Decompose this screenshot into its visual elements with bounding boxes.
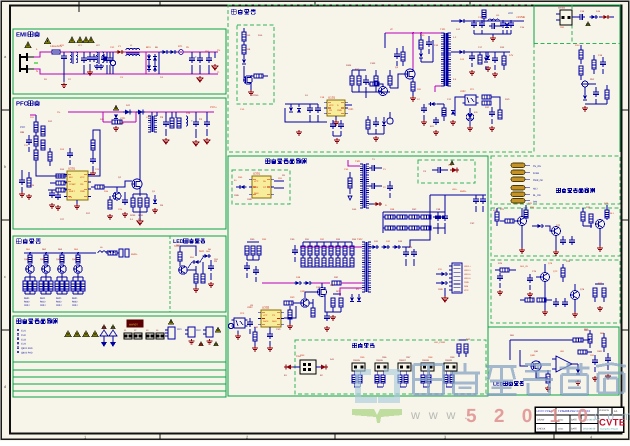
- svg-text:R1B: R1B: [246, 48, 251, 51]
- hl snub res R301: [348, 178, 352, 188]
- daiji sub mosfet Q101: [244, 76, 252, 84]
- hl res bank row1: [301, 246, 305, 255]
- svg-text:ADJ: ADJ: [533, 188, 537, 191]
- daiji fb grounds: [469, 126, 471, 128]
- fuliao table line 5: [13, 390, 226, 392]
- hl opto right wires: [274, 180, 284, 182]
- resistor R219 h: [56, 188, 65, 192]
- lp mosfet Q801: [531, 361, 541, 371]
- bg connector 4 resistors: [421, 375, 425, 383]
- svg-text:BD1: BD1: [146, 46, 151, 49]
- svg-text:CN101: CN101: [558, 7, 566, 10]
- svg-text:R3A: R3A: [238, 176, 243, 179]
- svg-text:CN8: CN8: [428, 356, 433, 359]
- ledp res R612: [194, 274, 198, 283]
- svg-text:5VSB: 5VSB: [533, 172, 539, 175]
- tv sub3 cap1: [497, 275, 503, 277]
- fuliao list bullet 3: [17, 338, 19, 340]
- svg-text:RCS: RCS: [336, 290, 341, 293]
- svg-text:PFC: PFC: [20, 126, 25, 129]
- daiji cap C103: [363, 79, 369, 81]
- junliu top rail: [24, 252, 96, 254]
- daiji res R106: [370, 82, 379, 86]
- cap C205: [204, 121, 210, 123]
- daiji right compartment right edge: [619, 5, 621, 152]
- zone tick right b: [622, 219, 629, 221]
- hl drv wires: [305, 292, 317, 298]
- svg-text:R601: R601: [24, 297, 30, 300]
- svg-text:C1A: C1A: [240, 108, 245, 111]
- daiji right compartment divider v: [571, 5, 573, 44]
- hl xfmr T301: [360, 163, 363, 165]
- daiji right cap C112: [579, 14, 581, 20]
- svg-text:VCC: VCC: [464, 289, 469, 292]
- tv sub2 q1: [518, 217, 527, 226]
- bg diode left: [286, 365, 291, 370]
- pfc left chain2 R215: [41, 140, 45, 150]
- fuliao conn E1: [168, 327, 175, 339]
- junliu cell 1 feed resistor R240: [28, 255, 32, 263]
- pfc ctrl IC U201: [67, 171, 88, 200]
- daiji bridge in wire: [285, 108, 327, 122]
- left low cluster cap C215: [19, 179, 25, 181]
- gate resistor R222: [95, 185, 104, 189]
- daiji mosfet drain wire: [413, 33, 441, 69]
- bridge rectifier BD1 d4: [153, 66, 157, 70]
- section title hengliu dianyuan - fanji: [265, 158, 270, 160]
- hl opto2 cap: [247, 321, 253, 323]
- daiji mosfet Q103: [405, 69, 415, 79]
- ground pfc caps1: [165, 138, 167, 140]
- divider junliu|LED-protect: [169, 236, 171, 312]
- tv sub3 q2: [571, 291, 580, 300]
- daiji right-ic res R121: [366, 120, 370, 129]
- tv oval pin P5: [511, 192, 525, 197]
- safety triangle 2: [25, 42, 31, 48]
- hl ic right wire: [284, 306, 296, 318]
- svg-text:CTR: CTR: [254, 186, 259, 189]
- svg-text:R3D: R3D: [250, 238, 255, 241]
- wire choke out: [140, 51, 146, 53]
- svg-text:T101: T101: [440, 28, 446, 31]
- svg-text:CN2: CN2: [196, 329, 201, 332]
- zone tick top 1: [159, 1, 161, 5]
- svg-text:VCC: VCC: [329, 104, 334, 107]
- pfc mosfet Q201: [132, 179, 142, 189]
- hl bottom cap: [324, 315, 330, 317]
- svg-text:CN1: CN1: [560, 26, 565, 29]
- resistor R218 h: [56, 181, 65, 185]
- hl grid r5: [385, 226, 395, 230]
- svg-text:1R0J: 1R0J: [24, 304, 29, 307]
- bg connector 3 resistors: [398, 375, 402, 383]
- hl drv res2: [288, 310, 292, 319]
- sense res wires: [133, 193, 147, 195]
- hl opto2 U303: [234, 318, 245, 328]
- svg-text:1R0J: 1R0J: [72, 304, 77, 307]
- svg-text:Q602: Q602: [40, 258, 46, 261]
- safety triangle near fuse: [44, 38, 50, 44]
- daiji rc2 mov RV101: [582, 81, 588, 87]
- hl snub tri: [348, 196, 352, 200]
- svg-text:R7A: R7A: [493, 209, 498, 212]
- junliu rail dot 2: [45, 252, 47, 254]
- junliu cell 2 transistor Q241: [42, 265, 50, 273]
- fuliao conn E2: [188, 327, 195, 337]
- fuliao list bullet 5: [17, 347, 19, 349]
- svg-text:Q6X2 PAD: Q6X2 PAD: [21, 352, 33, 355]
- svg-text:DIM: DIM: [533, 201, 537, 204]
- zener ZD201: [114, 115, 118, 119]
- svg-text:DIM: DIM: [464, 285, 468, 288]
- daiji res R107: [388, 76, 392, 85]
- svg-text:R1A: R1A: [258, 34, 263, 37]
- pfc top bus: [103, 111, 160, 113]
- daiji fb res R112: [482, 101, 491, 105]
- hl cs res: [331, 298, 335, 307]
- ground pfc caps2: [195, 140, 197, 142]
- daiji right wires: [572, 16, 577, 18]
- bg connector CN405: [444, 363, 457, 371]
- junliu cell 3 transistor Q242: [58, 265, 66, 273]
- svg-text:LED3+: LED3+: [464, 273, 471, 276]
- daiji sub chain R102: [242, 45, 246, 54]
- junliu output coil L601: [98, 251, 114, 253]
- hl mov RV301: [228, 323, 233, 328]
- lp res r4: [578, 350, 587, 354]
- fuliao table line 3: [13, 376, 226, 378]
- fuliao tri right: [215, 327, 221, 332]
- svg-text:CN7: CN7: [406, 356, 411, 359]
- tv oval pin P1: [511, 163, 525, 168]
- daiji ic U101: [327, 100, 345, 116]
- section title yu TV duan lianjie wangluo: [556, 187, 560, 189]
- lp grounds: [547, 386, 549, 388]
- pfc inductor L201: [148, 115, 151, 117]
- hl opto2 gnd: [237, 334, 239, 336]
- hl mid res: [332, 281, 341, 285]
- section box backlight dashed: [295, 340, 486, 394]
- svg-text:R1D: R1D: [420, 34, 425, 37]
- daiji bridge d2: [297, 108, 301, 112]
- hl xfmr bottom diode: [375, 202, 379, 206]
- bg connector CN401: [352, 363, 365, 371]
- daiji vcc diode D104: [430, 102, 434, 106]
- lp cap1: [592, 359, 598, 361]
- svg-text:CN407: CN407: [399, 359, 407, 362]
- svg-text:CN405: CN405: [353, 359, 361, 362]
- vcc wire: [88, 130, 100, 176]
- hl cs gnd: [332, 315, 334, 317]
- hl left col wires: [247, 241, 259, 243]
- daiji ic ground: [335, 120, 337, 122]
- svg-text:C3E: C3E: [408, 246, 413, 249]
- daiji sub ground: [250, 90, 252, 92]
- daiji right compartment left solid seg: [533, 5, 535, 44]
- resistor R217 h: [56, 174, 65, 178]
- zone tick bottom 2: [334, 434, 336, 440]
- daiji sub-box dashed: [237, 25, 274, 104]
- hl ic below res: [253, 332, 257, 341]
- wire emi top rail: [60, 51, 218, 53]
- hl pri wire top: [300, 246, 362, 248]
- tv sub3 q1: [541, 273, 550, 282]
- section box TV-connect dashed: [491, 156, 620, 204]
- bg diode right: [321, 365, 326, 370]
- daiji fb opto U102: [465, 95, 476, 105]
- daiji vcc res: [442, 108, 446, 116]
- svg-text:C3F: C3F: [254, 326, 259, 329]
- svg-text:U201: U201: [68, 167, 76, 171]
- daiji tl431 U103: [468, 114, 473, 119]
- fuliao warn plate: [127, 320, 143, 327]
- daiji sec cap C105: [471, 22, 477, 24]
- fuliao jumper JP1: [124, 333, 132, 339]
- daiji snubber cap C104: [426, 41, 432, 43]
- lp top wire: [510, 339, 568, 341]
- svg-text:U301: U301: [253, 172, 261, 176]
- svg-text:R231: R231: [138, 214, 144, 217]
- fuliao table line 1: [13, 361, 226, 363]
- title block col line a: [555, 407, 557, 432]
- cy pair grounds: [96, 64, 98, 66]
- svg-text:R1E: R1E: [500, 46, 505, 49]
- wire into ic top: [36, 168, 56, 176]
- fuliao jumper JP2: [134, 333, 142, 339]
- svg-text:LED+: LED+: [460, 190, 467, 193]
- hl sec diodes: [372, 245, 376, 249]
- bg connector 1 resistors: [352, 375, 356, 383]
- svg-text:LED+: LED+: [452, 188, 458, 191]
- daiji out cluster2 res: [502, 56, 506, 65]
- daiji bridge cap C101: [307, 107, 313, 109]
- svg-text:GND: GND: [80, 190, 85, 193]
- cap CY2: [87, 56, 93, 58]
- left low cluster cap C216: [55, 194, 61, 196]
- wire chain: [35, 115, 37, 122]
- wire bus to caps: [165, 112, 167, 120]
- hl res bank row1 wires: [303, 241, 352, 243]
- svg-text:GND: GND: [337, 109, 342, 112]
- svg-text:R3G: R3G: [290, 296, 295, 299]
- svg-text:R3F: R3F: [334, 276, 339, 279]
- svg-text:CN408: CN408: [422, 359, 430, 362]
- hl left cap C303: [253, 269, 259, 271]
- lp res r3: [602, 338, 606, 347]
- daiji snubber diode D101: [419, 54, 423, 58]
- cap CY4: [101, 56, 107, 58]
- bridge rectifier BD1 d2: [153, 56, 157, 60]
- svg-text:5R1: 5R1: [120, 122, 125, 125]
- junliu cell 1 balance resistors: [23, 281, 27, 291]
- fuliao list bullet 4: [17, 342, 19, 344]
- tv sub3 caps2: [553, 301, 559, 303]
- hl xfmr top cap2: [371, 183, 373, 189]
- svg-text:+: +: [191, 119, 193, 123]
- cap CY3: [91, 56, 97, 58]
- cap C7: [206, 57, 212, 59]
- section title daiji dianyuan: [231, 8, 236, 10]
- svg-text:CU2: CU2: [21, 334, 26, 337]
- daiji fb res R113: [498, 110, 502, 119]
- daiji xfmr T101: [441, 32, 444, 34]
- daiji rc2 res R117: [592, 60, 596, 69]
- svg-text:S-: S-: [385, 204, 387, 207]
- tv sub2 q3: [596, 220, 605, 229]
- daiji sec2 cap C109: [469, 55, 475, 57]
- svg-text:INV: INV: [69, 176, 73, 179]
- tv sub3 grounds: [499, 290, 501, 292]
- svg-text:C3C: C3C: [470, 222, 475, 225]
- daiji right conn CN101: [560, 10, 572, 25]
- resistor R207: [177, 118, 181, 128]
- hl big ground: [444, 296, 446, 298]
- bg connector CN404: [421, 363, 434, 371]
- zone tick bottom 1: [159, 434, 161, 440]
- ntc RT1: [179, 50, 184, 55]
- common-mode choke LF1: [70, 52, 72, 63]
- svg-text:1R0J: 1R0J: [56, 304, 61, 307]
- daiji sec diode D102: [459, 19, 463, 23]
- daiji ground bridge: [298, 130, 300, 132]
- cap over ic C213: [67, 152, 73, 154]
- daiji mosfet source res R108: [411, 82, 415, 91]
- hl drv res: [284, 301, 293, 305]
- daiji rc2 cap C114: [593, 91, 599, 93]
- svg-text:GD: GD: [80, 183, 84, 186]
- svg-text:CO: CO: [263, 186, 267, 189]
- daiji sec ground: [492, 36, 494, 38]
- cap C217: [122, 199, 128, 201]
- boost diode D201: [125, 110, 130, 115]
- bg connector 5 resistors: [444, 375, 448, 383]
- ledp transistor Q611: [179, 266, 187, 274]
- svg-text:VCC: VCC: [508, 12, 513, 15]
- hl grid r4: [421, 215, 431, 219]
- svg-text:PWR_OK: PWR_OK: [533, 179, 543, 182]
- svg-text:DATE: DATE: [571, 428, 577, 431]
- daiji rc2 wires: [581, 83, 596, 85]
- svg-text:R621: R621: [56, 297, 62, 300]
- daiji out cluster1 res: [482, 10, 486, 18]
- tv sub2 caps: [560, 239, 566, 241]
- daiji fb wires: [455, 97, 463, 116]
- hl conn CN301: [452, 263, 462, 293]
- surge diode D1: [117, 50, 121, 54]
- svg-text:5 2 0 1 0: 5 2 0 1 0: [466, 406, 594, 427]
- left low cluster res R221: [27, 178, 31, 187]
- hl grid top wire: [383, 211, 445, 213]
- svg-text:PFC+: PFC+: [210, 106, 217, 109]
- svg-text:Q7C: Q7C: [553, 270, 558, 273]
- lp opamp U801: [556, 356, 572, 372]
- pfc left divider chain R211: [34, 122, 38, 132]
- section box hengliu (flyback) solid: [228, 156, 488, 396]
- hl xfmr pri wire: [348, 160, 360, 166]
- cap C214: [90, 158, 96, 160]
- daiji rc2 res R115: [579, 50, 583, 59]
- svg-text:LED4+: LED4+: [464, 277, 471, 280]
- hl opto diode: [240, 185, 244, 189]
- svg-text:T302: T302: [357, 238, 363, 241]
- svg-text:Z201: Z201: [120, 117, 126, 120]
- tv oval pin P4: [511, 186, 525, 191]
- bridge rectifier BD1 d3: [147, 66, 151, 70]
- ground under ic: [76, 204, 78, 206]
- line choke L1 winding b: [126, 54, 140, 56]
- hl drv res3: [311, 308, 315, 317]
- svg-text:Guangzhou Shiyuan: Guangzhou Shiyuan: [600, 428, 618, 431]
- svg-text:U101: U101: [348, 108, 354, 111]
- title block col line e: [580, 415, 582, 432]
- svg-text:CN6: CN6: [382, 356, 387, 359]
- resistor R216: [48, 152, 52, 161]
- svg-text:R602: R602: [24, 301, 30, 304]
- svg-text:288: 288: [20, 131, 25, 134]
- daiji bridge cap C102: [315, 107, 321, 109]
- hl xfmr bottom wire: [369, 203, 374, 205]
- wires ic left: [48, 175, 67, 177]
- svg-text:BL_ON: BL_ON: [533, 194, 541, 197]
- svg-text:c: c: [4, 274, 6, 279]
- tv sub3 res h: [500, 268, 509, 272]
- X-cap CX3: [107, 57, 113, 59]
- daiji rc2 res R116: [579, 66, 583, 75]
- hl small box diode: [452, 168, 457, 173]
- svg-text:U101: U101: [328, 96, 336, 100]
- daiji rc2 cap C113: [600, 61, 606, 63]
- svg-text:MULT: MULT: [69, 190, 75, 193]
- svg-text:CU4: CU4: [21, 343, 26, 346]
- daiji out cluster2 rail: [480, 51, 510, 53]
- svg-text:CX: CX: [423, 170, 427, 173]
- daiji transistor Q102: [379, 87, 388, 96]
- svg-text:R3A: R3A: [330, 284, 335, 287]
- daiji below-ic cap C120: [330, 123, 336, 125]
- svg-text:R1A: R1A: [246, 34, 251, 37]
- hl out caps right: [473, 198, 479, 200]
- svg-text:D3B: D3B: [296, 276, 301, 279]
- svg-text:C3A: C3A: [344, 168, 349, 171]
- ledp diode D611: [204, 254, 208, 258]
- svg-text:HI-POT: HI-POT: [129, 323, 138, 326]
- svg-text:R3E: R3E: [262, 238, 267, 241]
- title block row line 2: [535, 423, 598, 425]
- section box EMI: [13, 29, 226, 94]
- daiji sec rail: [466, 20, 524, 22]
- svg-text:GND: GND: [247, 198, 252, 201]
- svg-text:CHECK: CHECK: [537, 428, 546, 431]
- hl small box cap: [437, 167, 439, 173]
- zone tick top 2: [314, 1, 316, 5]
- hl sec caps: [403, 251, 409, 253]
- svg-text:C1B: C1B: [320, 96, 325, 99]
- daiji fb cap C110: [489, 111, 495, 113]
- hl left cap C302: [244, 265, 250, 267]
- section title beiguang jiekou: [352, 342, 357, 344]
- hl grid cap C301: [387, 185, 393, 187]
- hl grid r6: [397, 226, 407, 230]
- bg connector CN402: [375, 363, 388, 371]
- zone tick left a: [1, 109, 10, 111]
- daiji snubber wires: [421, 61, 433, 63]
- lp cap2: [605, 357, 611, 359]
- section box TV sub3 dashed: [491, 260, 620, 323]
- svg-text:CS: CS: [69, 196, 73, 199]
- svg-text:CN4: CN4: [300, 354, 305, 357]
- daiji sec2 rail: [466, 51, 500, 53]
- hl grid r8: [421, 226, 431, 230]
